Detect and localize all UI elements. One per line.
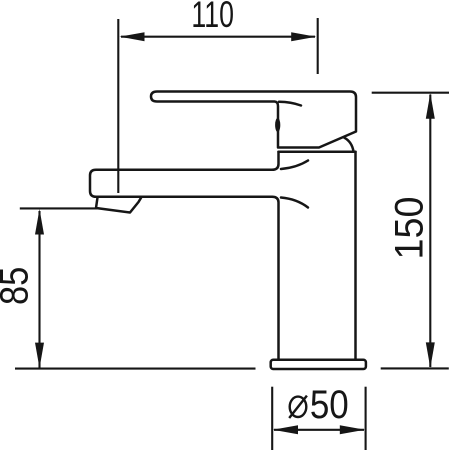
svg-text:150: 150	[388, 197, 432, 260]
svg-text:50: 50	[310, 382, 349, 427]
svg-text:85: 85	[0, 267, 36, 305]
svg-text:110: 110	[191, 0, 234, 35]
